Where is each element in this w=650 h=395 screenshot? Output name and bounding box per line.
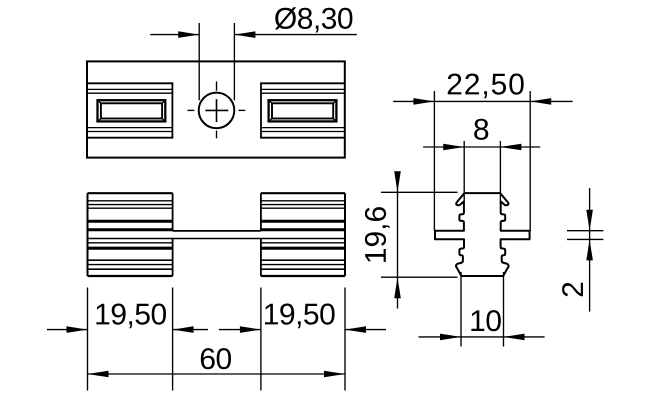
- dim 19,6 line: [397, 172, 399, 308]
- front dim extension line: [344, 288, 346, 391]
- top view left slot chamfer: [162, 100, 165, 103]
- top view left block line: [87, 82, 172, 84]
- front right block line: [261, 207, 345, 209]
- dim 8 right extension line: [499, 141, 501, 202]
- top view outer body rectangle: [87, 61, 345, 157]
- top view left block line: [87, 92, 172, 94]
- front left block line: [88, 268, 173, 270]
- front right block line: [261, 268, 345, 270]
- dim 2 line: [589, 188, 591, 312]
- top view right block line: [261, 127, 345, 129]
- dim 2 top extension line: [567, 230, 603, 232]
- front right block line: [261, 220, 345, 223]
- dim text 60: [201, 348, 231, 369]
- hole vertical centerline cross: [216, 99, 218, 122]
- front left block line: [88, 242, 173, 244]
- dim 8,30 right extension line: [233, 23, 235, 100]
- front right block line: [261, 200, 345, 202]
- dim 2 bottom extension line: [567, 238, 603, 240]
- dim 19,50 arrow at x261: [240, 326, 261, 333]
- front left block line: [88, 207, 173, 209]
- front right block line: [261, 192, 345, 194]
- hole horizontal centerline cross: [205, 109, 228, 111]
- dim 19,6 top extension line: [381, 191, 458, 193]
- top view right slot outer: [269, 100, 337, 121]
- hole vertical centerline dash bottom: [216, 131, 218, 139]
- dim text 2: [562, 283, 583, 297]
- dim 10 line: [419, 336, 545, 338]
- dim 10 left arrow: [440, 334, 461, 341]
- front right block line: [261, 242, 345, 244]
- top view left block line: [87, 88, 172, 90]
- dim 22,50 right arrow: [530, 98, 551, 105]
- cross-section extrusion profile outline: [435, 193, 530, 276]
- front left block left edge: [87, 193, 89, 276]
- dim 22,50 line: [393, 100, 572, 102]
- top view left slot outer: [98, 100, 166, 121]
- front left block line: [88, 192, 173, 194]
- front left block line: [88, 204, 173, 206]
- dim 22,50 left arrow: [413, 98, 434, 105]
- dim 8,30 right arrow: [234, 31, 255, 38]
- top view right block left edge: [260, 82, 262, 138]
- front left block line: [88, 264, 173, 266]
- front dim extension line: [87, 288, 89, 391]
- top view right block line: [261, 137, 345, 139]
- dim 8 right arrow: [500, 144, 521, 151]
- top view left block line: [87, 127, 172, 129]
- dim text 8: [474, 119, 488, 140]
- dim 19,50 middle tail right: [219, 329, 261, 331]
- dim 8,30 left extension line: [198, 23, 200, 100]
- front left block right edge lower: [172, 239, 174, 277]
- dim 60 line: [88, 373, 346, 375]
- top view right slot chamfer: [333, 100, 336, 103]
- top view left slot chamfer: [98, 100, 101, 103]
- front right block line: [261, 247, 345, 250]
- dim 19,6 bottom extension line: [381, 276, 458, 278]
- front right block left edge lower: [260, 239, 262, 277]
- top view left block right edge: [171, 82, 173, 138]
- dim text 19,50 left: [96, 304, 166, 329]
- top view right slot chamfer: [269, 119, 272, 122]
- dim 8 left arrow: [443, 144, 464, 151]
- front right block line: [261, 204, 345, 206]
- dim 19,50 arrow at x345: [345, 326, 366, 333]
- front left block line: [88, 275, 173, 277]
- front left block right edge upper: [172, 193, 174, 231]
- dim 19,50 arrow at x87: [67, 326, 88, 333]
- front right block left edge upper: [260, 193, 262, 231]
- top view right slot chamfer: [333, 119, 336, 122]
- front connecting bar top line: [173, 230, 261, 232]
- dim 19,6 top arrow: [394, 171, 401, 192]
- dim 60 left arrow: [88, 371, 109, 378]
- dim 19,50 middle tail left: [173, 329, 208, 331]
- dim 19,50 right outer tail: [345, 329, 386, 331]
- top view right block line: [261, 131, 345, 133]
- dim 2 bottom arrow: [586, 239, 593, 260]
- hole horizontal centerline dash right: [239, 109, 246, 111]
- top view right slot chamfer: [269, 100, 272, 103]
- hole horizontal centerline dash left: [188, 109, 195, 111]
- dim text 8,30: [275, 7, 353, 32]
- front right block right edge: [344, 193, 346, 276]
- top view left block line: [87, 137, 172, 139]
- front left block line: [88, 220, 173, 223]
- top view right slot inner: [272, 103, 333, 118]
- top view right block line: [261, 92, 345, 94]
- dim 8,30 right tail line: [234, 34, 356, 36]
- front dim extension line: [260, 288, 262, 391]
- front left block line: [88, 228, 173, 231]
- dim 8 line: [423, 146, 540, 148]
- front left block line: [88, 247, 173, 250]
- dim 10 right extension line: [503, 272, 505, 347]
- dim text 19,6: [365, 207, 390, 262]
- dim text 10: [471, 310, 500, 331]
- top view right block line: [261, 82, 345, 84]
- dim 19,6 bottom arrow: [394, 277, 401, 298]
- top view left slot chamfer: [162, 119, 165, 122]
- dim 10 right arrow: [504, 334, 525, 341]
- dim 8,30 left tail line: [150, 34, 199, 36]
- dim 22,50 right extension line: [529, 91, 531, 231]
- hole vertical centerline dash top: [216, 81, 218, 90]
- front right block line: [261, 259, 345, 261]
- front left block line: [88, 200, 173, 202]
- dim 8 left extension line: [463, 141, 465, 202]
- top view hole circle: [199, 93, 235, 129]
- front left block line: [88, 259, 173, 261]
- dim 60 right arrow: [324, 371, 345, 378]
- dim text 19,50 right: [265, 304, 335, 329]
- dim 19,50 left outer tail: [47, 329, 88, 331]
- dim 22,50 left extension line: [433, 91, 435, 231]
- front right block line: [261, 275, 345, 277]
- top view left slot inner: [101, 103, 162, 118]
- front connecting bar bottom line: [88, 238, 346, 240]
- top view left slot chamfer: [98, 119, 101, 122]
- front right block line: [261, 264, 345, 266]
- front dim extension line: [172, 288, 174, 391]
- dim 19,50 arrow at x172: [173, 326, 194, 333]
- dim 8,30 left arrow: [178, 31, 199, 38]
- dim 2 top arrow: [586, 210, 593, 231]
- front right block line: [261, 228, 345, 231]
- dim text 22,50: [448, 74, 524, 99]
- top view right block line: [261, 88, 345, 90]
- top view left block line: [87, 131, 172, 133]
- dim 10 left extension line: [460, 272, 462, 347]
